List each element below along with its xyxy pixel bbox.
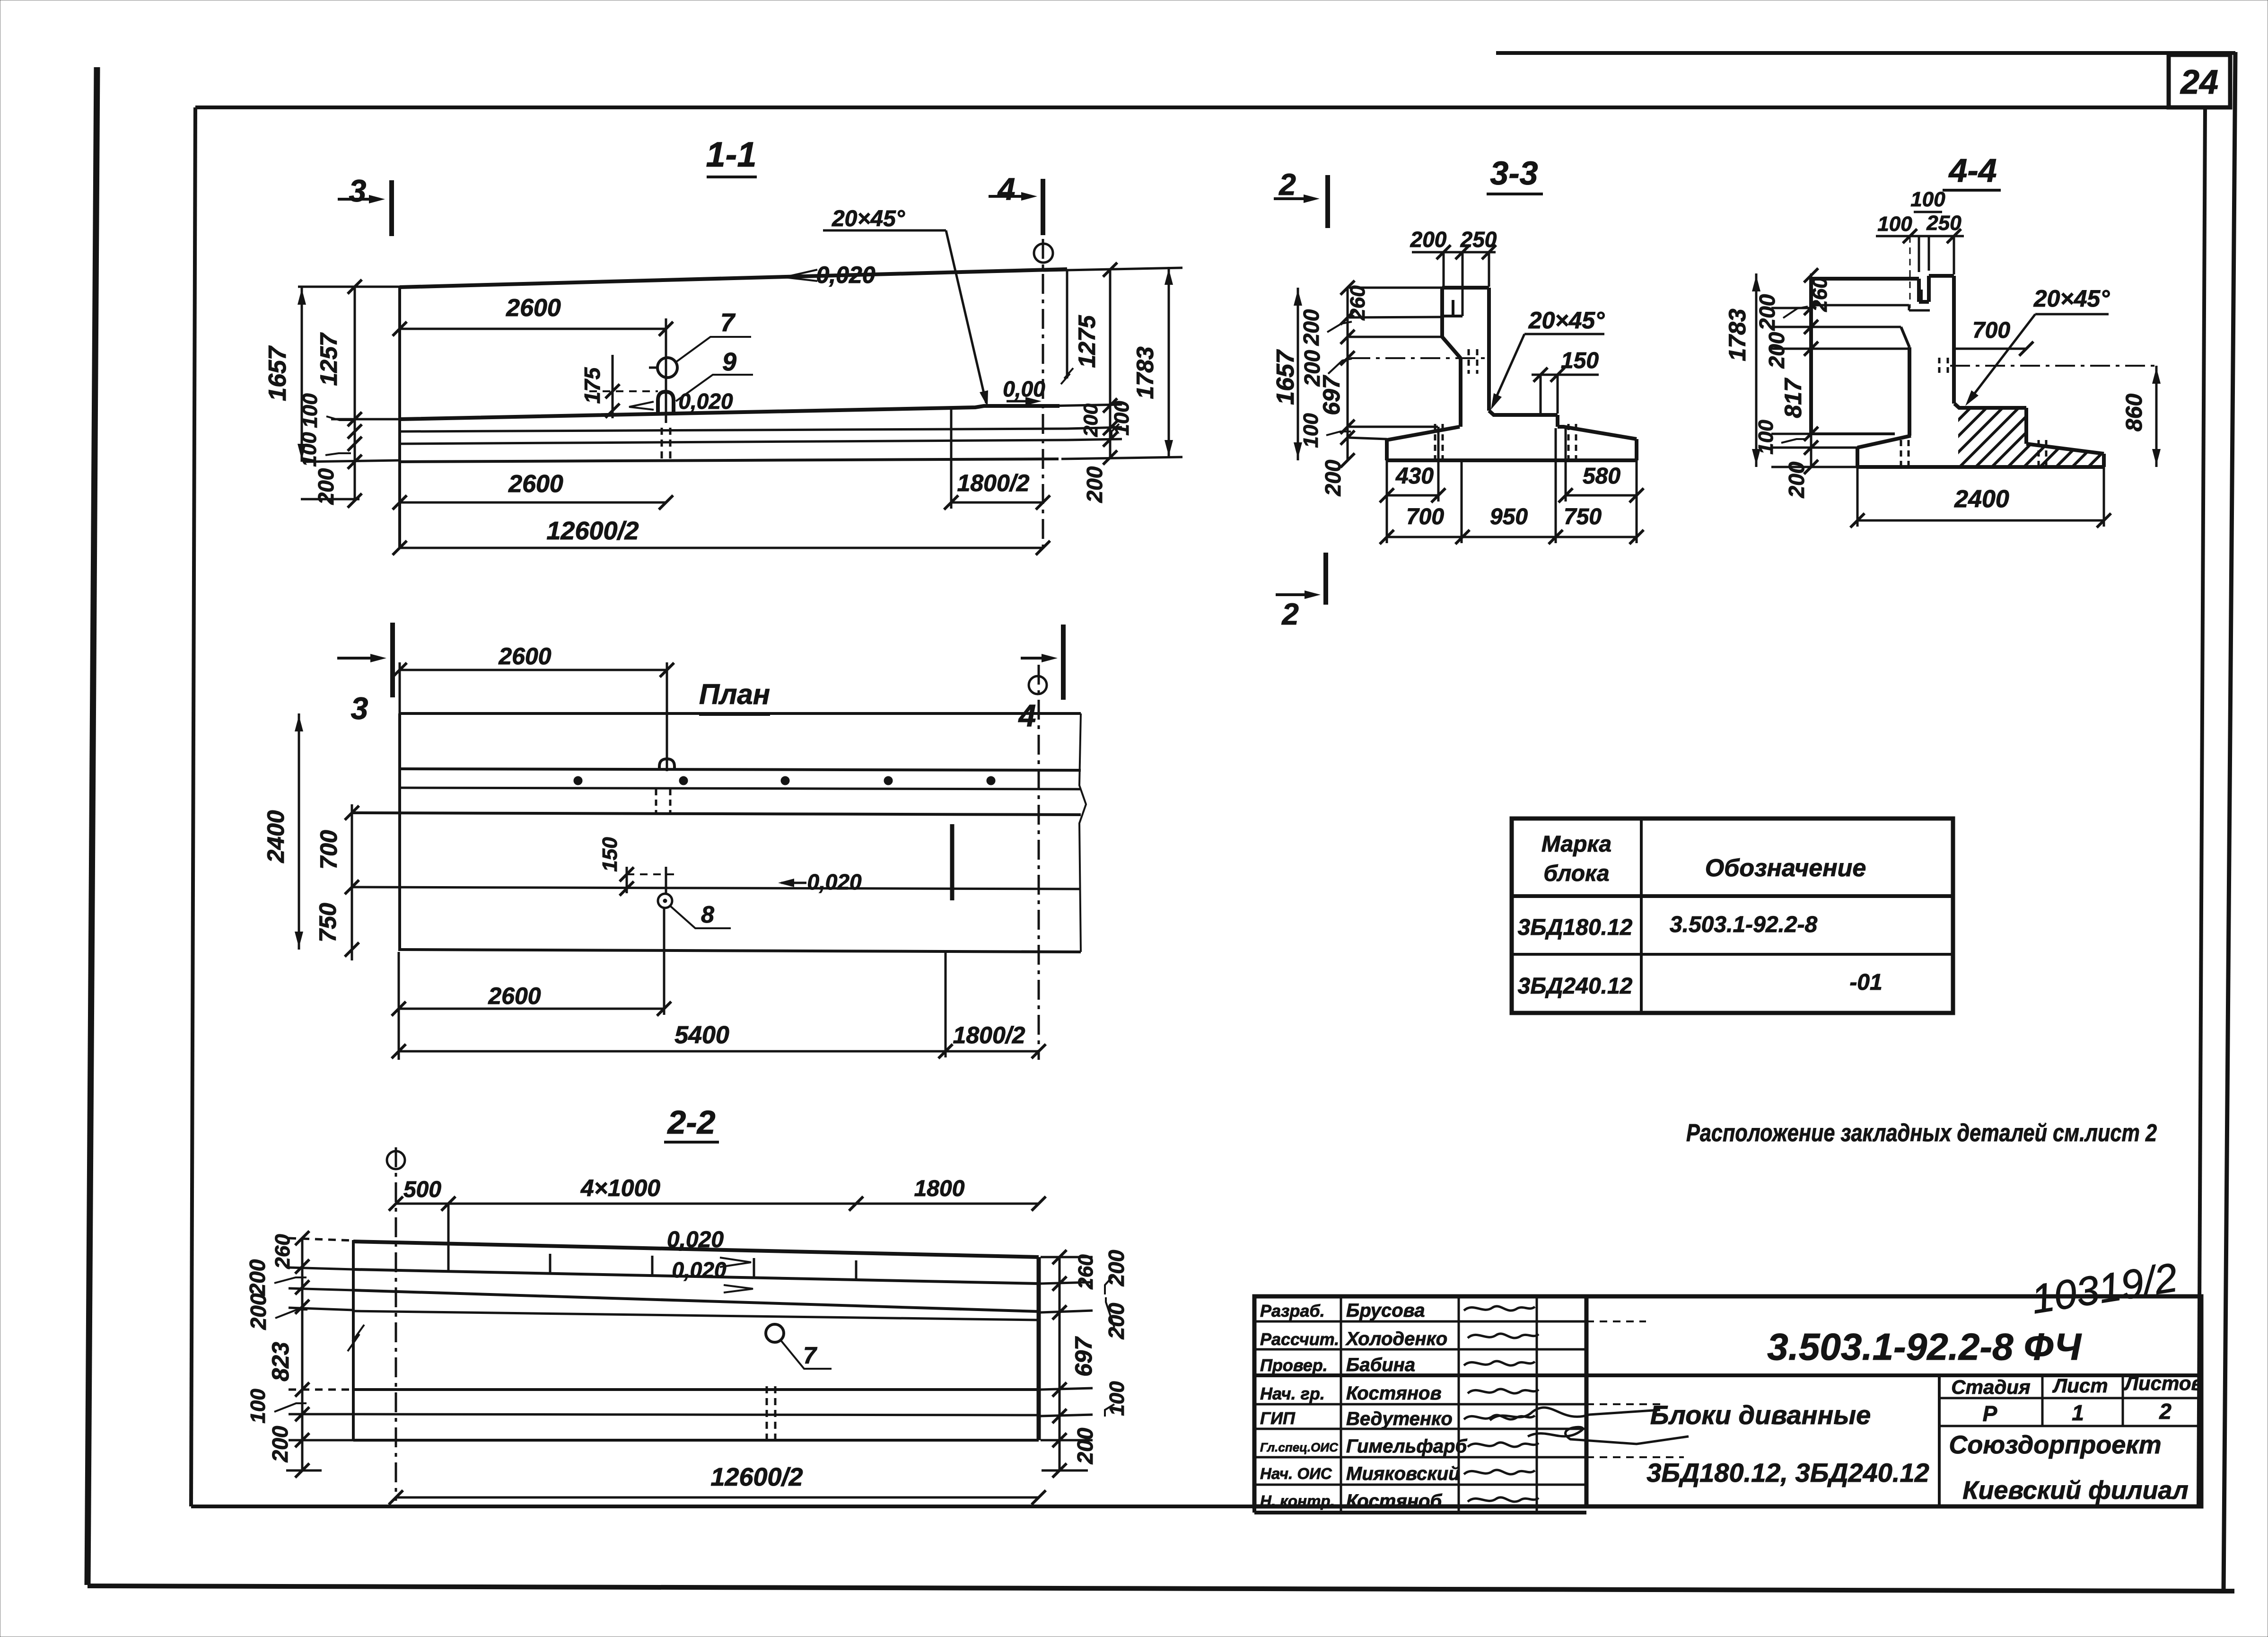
svg-text:200: 200 (1082, 466, 1107, 503)
3-3 outline: foundation left edge (1385, 440, 1389, 460)
svg-text:200: 200 (1073, 1427, 1097, 1464)
dim 175 extension dash (589, 390, 658, 392)
svg-text:100: 100 (298, 432, 321, 467)
page left edge shadow (88, 67, 97, 1585)
3-3 dim 1657 line (1297, 288, 1299, 460)
dim 2600 top boundary (665, 318, 667, 423)
title block divider names/signatures (1458, 1296, 1460, 1513)
svg-text:1783: 1783 (1724, 308, 1751, 361)
4-4 outline: top edge (1811, 277, 1919, 281)
dim 1800/2 boundary (950, 407, 953, 509)
svg-text:100: 100 (1877, 212, 1912, 236)
svg-text:2: 2 (2159, 1399, 2172, 1424)
svg-text:700: 700 (315, 830, 342, 870)
3-3 chamfer leader (1493, 334, 1524, 405)
svg-text:Гл.спец.ОИС: Гл.спец.ОИС (1260, 1440, 1339, 1454)
3-3 outline: parapet top (1442, 286, 1489, 290)
svg-text:Костянов: Костянов (1346, 1383, 1442, 1404)
4-4 inner line 691 (1811, 326, 1901, 328)
svg-text:200: 200 (246, 1293, 271, 1330)
svg-text:2-2: 2-2 (666, 1104, 715, 1141)
3-3 notch inner tick (1452, 300, 1454, 316)
section marker 2 top: bar (1325, 175, 1330, 228)
extension ticks 1-1 left (298, 286, 400, 288)
page bottom edge shadow (88, 1586, 2234, 1591)
plan embedded dots (574, 776, 582, 785)
4-4 inner line 737 (1811, 348, 1909, 350)
3-3 extension lines left (1349, 287, 1442, 289)
svg-text:500: 500 (403, 1177, 441, 1202)
svg-text:100: 100 (1754, 420, 1778, 455)
svg-text:200: 200 (1321, 459, 1345, 496)
svg-text:2: 2 (1278, 167, 1296, 202)
3-3 outline: seat step (1556, 415, 1559, 427)
svg-text:3.503.1-92.2-8: 3.503.1-92.2-8 (1670, 912, 1818, 937)
4-4 seat step (2024, 408, 2028, 444)
4-4 extension ticks left (1771, 307, 1811, 309)
section marker 3 top: arrow line (338, 198, 378, 201)
plan dim 150 line (626, 867, 628, 893)
plan rail line b (400, 788, 1081, 789)
svg-text:580: 580 (1583, 464, 1620, 489)
svg-text:0,00: 0,00 (1003, 377, 1045, 401)
svg-text:Нач. ОИС: Нач. ОИС (1260, 1465, 1332, 1482)
svg-text:1800/2: 1800/2 (957, 470, 1030, 496)
4-4 top dim hidden boundary (1909, 236, 1911, 308)
beam 1-1 centerline (1042, 239, 1044, 551)
leader 7 of 2-2 (780, 1340, 832, 1369)
svg-text:2400: 2400 (1954, 485, 2009, 513)
plan bottom dim 5400 line (399, 1050, 1039, 1053)
svg-text:Мияковский: Мияковский (1346, 1463, 1460, 1484)
4-4 foundation right edge (2102, 454, 2106, 467)
svg-text:Нач. гр.: Нач. гр. (1260, 1384, 1325, 1403)
svg-text:700: 700 (1972, 318, 2010, 343)
svg-text:12600/2: 12600/2 (710, 1463, 803, 1491)
plan lower line (352, 887, 1081, 889)
beam 2-2 slab line b (353, 1414, 1039, 1415)
plan leader 8 (670, 906, 731, 928)
svg-text:блока: блока (1543, 861, 1609, 886)
svg-text:3БД180.12, 3БД240.12: 3БД180.12, 3БД240.12 (1646, 1458, 1929, 1487)
signature flourish GIP (1490, 1408, 1660, 1420)
svg-text:817: 817 (1780, 378, 1806, 418)
svg-text:4-4: 4-4 (1948, 152, 1997, 189)
svg-text:200: 200 (1299, 309, 1323, 346)
plan centerline (1038, 665, 1040, 1060)
4-4 dim 1783 line (1755, 273, 1758, 467)
section 2-2 centerline symbol (387, 1151, 405, 1169)
plan dim 5400 right boundary (945, 952, 947, 1057)
4-4 dim stack column (1810, 273, 1813, 467)
svg-text:1: 1 (2072, 1400, 2084, 1425)
4-4 foundation top right slope (2026, 444, 2104, 454)
loop 9 leader (676, 375, 753, 401)
drawing frame right border (2198, 107, 2205, 1506)
beam 1-1 bottom edge (400, 459, 1059, 462)
3-3 outline: web left edge (1459, 358, 1462, 427)
title block row lines (1254, 1320, 1586, 1323)
3-3 dash-dot level line (1350, 357, 1489, 359)
svg-text:0,020: 0,020 (807, 870, 862, 894)
4-4 splice dashes web (1938, 358, 1941, 376)
4-4 foundation top left slope (1857, 436, 1911, 448)
svg-text:Обозначение: Обозначение (1705, 854, 1866, 882)
title block divider signatures/dates (1536, 1296, 1538, 1513)
svg-text:Союздорпроект: Союздорпроект (1949, 1431, 2161, 1459)
svg-text:3: 3 (349, 173, 367, 208)
4-4 chamfer leader (1969, 314, 2035, 401)
3-3 outline: foundation top right slope (1558, 427, 1637, 439)
svg-text:4: 4 (997, 171, 1016, 206)
svg-text:8: 8 (701, 901, 714, 928)
spacing ticks on line 2 (447, 1251, 450, 1272)
4-4 dim 2400 line (1857, 519, 2104, 522)
svg-text:7: 7 (803, 1342, 817, 1369)
chamfer leader 1-1 (946, 230, 986, 403)
section 2-2 centerline (395, 1147, 397, 1501)
page right edge shadow (2224, 52, 2235, 1592)
embedded part 7 circle (657, 358, 677, 378)
4-4 left block bottom (1811, 432, 1895, 435)
svg-text:1800: 1800 (914, 1176, 965, 1201)
svg-text:260: 260 (1074, 1254, 1097, 1290)
svg-text:ГИП: ГИП (1260, 1408, 1296, 1428)
table column divider (1640, 818, 1643, 1013)
3-3 top dim boundaries (1443, 252, 1445, 287)
section marker 3 bottom: bar (390, 623, 395, 697)
section marker 3 top: bar (389, 180, 394, 236)
right dim column of 2-2 (1059, 1257, 1061, 1471)
svg-text:697: 697 (1318, 375, 1345, 415)
svg-text:100: 100 (1105, 1381, 1129, 1416)
svg-text:260: 260 (1808, 277, 1831, 312)
extension ticks 2-2 left (289, 1238, 353, 1241)
title block dashed row extensions (1586, 1403, 1665, 1405)
4-4 outline: parapet top (1929, 274, 1954, 278)
svg-text:200: 200 (1079, 404, 1102, 437)
page number box (2169, 55, 2230, 107)
4-4 level dash-dot line (1950, 365, 2156, 367)
beam 2-2 left break squiggle (348, 1325, 364, 1351)
signature flourish Gimelfarb (1528, 1427, 1689, 1444)
svg-text:3БД240.12: 3БД240.12 (1518, 974, 1633, 999)
3-3 outline: parapet left edge (1440, 288, 1444, 337)
4-4 dim 700 line (1954, 348, 2026, 350)
svg-text:1800/2: 1800/2 (953, 1022, 1025, 1048)
section marker 4 bottom: bar (1061, 625, 1066, 700)
svg-text:Гимельфарб: Гимельфарб (1346, 1436, 1467, 1457)
svg-text:175: 175 (580, 367, 604, 404)
section marker 2 top: arrow line (1274, 197, 1314, 200)
4-4 splice dashes right foundation (2038, 440, 2040, 467)
beam 2-2 line 4 (353, 1311, 1039, 1320)
4-4 top dim boundaries (1918, 236, 1920, 272)
title block stage values row line (1939, 1425, 2201, 1427)
table header row line (1512, 894, 1953, 898)
svg-text:260: 260 (271, 1234, 294, 1269)
svg-text:100: 100 (298, 393, 322, 428)
svg-text:100: 100 (1299, 413, 1322, 448)
section marker 2 bottom: arrow line (1276, 593, 1315, 596)
svg-text:Стадия: Стадия (1951, 1376, 2030, 1398)
svg-text:Киевский филиал: Киевский филиал (1962, 1476, 2188, 1505)
svg-text:Листов: Листов (2123, 1372, 2203, 1394)
3-3 splice dashes left foundation (1434, 424, 1436, 460)
plan bottom dim 2600 line (399, 1008, 664, 1010)
svg-text:Блоки диванные: Блоки диванные (1650, 1400, 1871, 1430)
svg-text:1783: 1783 (1132, 346, 1158, 399)
svg-text:2600: 2600 (498, 643, 551, 669)
svg-text:Р: Р (1983, 1401, 1997, 1426)
embedded part 7 circle 2-2 (766, 1324, 784, 1342)
svg-text:24: 24 (2180, 63, 2218, 101)
4-4 web right edge (1952, 276, 1956, 404)
4-4 foundation left edge (1856, 448, 1859, 467)
svg-text:Рассчит.: Рассчит. (1260, 1329, 1339, 1349)
svg-text:200: 200 (1784, 461, 1809, 498)
left dim column stack of 1-1 (354, 287, 356, 501)
svg-text:1657: 1657 (264, 345, 291, 401)
3-3 dim 700/950/750 line (1387, 536, 1637, 538)
beam 2-2 right end edge (1037, 1257, 1041, 1440)
plan outline bottom edge (400, 950, 1081, 952)
table row line (1512, 953, 1953, 956)
right dims 1-1: extension lines (1043, 268, 1182, 271)
title block right area divider (1938, 1375, 1941, 1506)
plan circle 8 (658, 894, 672, 908)
dim 1800/2 line (951, 502, 1043, 504)
svg-text:5400: 5400 (674, 1021, 729, 1049)
dim 1783 line of 1-1 (1168, 267, 1170, 458)
svg-text:100: 100 (246, 1389, 270, 1424)
svg-text:697: 697 (1070, 1336, 1097, 1377)
svg-text:7: 7 (720, 308, 736, 337)
svg-text:4: 4 (1018, 698, 1036, 733)
svg-text:823: 823 (267, 1342, 294, 1382)
svg-text:3-3: 3-3 (1490, 155, 1538, 192)
top dim line 2-2 (396, 1203, 1039, 1205)
svg-text:2: 2 (1281, 597, 1299, 631)
svg-text:План: План (699, 678, 770, 710)
slope mark 0,020 lower (629, 402, 654, 410)
svg-text:2400: 2400 (263, 810, 289, 863)
svg-text:0,020: 0,020 (672, 1258, 727, 1282)
svg-text:200: 200 (1755, 294, 1779, 331)
drawing frame top border (195, 106, 2205, 109)
table of marks: outer box (1512, 818, 1953, 1013)
svg-text:150: 150 (598, 837, 622, 872)
embedded part 7 leader (675, 337, 751, 362)
svg-text:12600/2: 12600/2 (546, 517, 639, 545)
beam 2-2 left edge (352, 1240, 355, 1440)
left dim column of 2-2 (301, 1238, 304, 1471)
4-4 top dim line (1876, 235, 1964, 238)
4-4 notch lines (1917, 279, 1921, 302)
plan dim 2600 top boundaries (399, 662, 401, 715)
svg-text:1275: 1275 (1074, 315, 1100, 368)
4-4 taper (1901, 327, 1909, 347)
svg-text:3: 3 (351, 691, 368, 726)
svg-text:250: 250 (1926, 211, 1962, 235)
left dim column 1657 of 1-1 (301, 287, 303, 462)
beam 1-1 top edge (400, 269, 1067, 287)
svg-text:Расположение закладных деталей: Расположение закладных деталей см.лист 2 (1686, 1119, 2157, 1147)
svg-text:3.503.1-92.2-8 ФЧ: 3.503.1-92.2-8 ФЧ (1767, 1326, 2082, 1368)
beam 1-1 slab line a (400, 429, 1067, 431)
svg-text:430: 430 (1395, 464, 1434, 489)
svg-text:200: 200 (314, 468, 338, 505)
plan hidden dowel dashes (655, 789, 657, 813)
svg-text:950: 950 (1490, 504, 1528, 529)
svg-text:20×45°: 20×45° (2033, 285, 2110, 312)
plan centerline symbol (1029, 676, 1047, 694)
svg-text:Провер.: Провер. (1260, 1355, 1328, 1375)
beam 1-1 slab line b (400, 440, 1067, 444)
svg-text:Ведутенко: Ведутенко (1346, 1408, 1453, 1429)
4-4 hatch region (1797, 402, 2268, 468)
plan seat front line (352, 813, 1081, 815)
beam 1-1 right break boundary (1066, 269, 1068, 378)
dim 12600/2 line (400, 547, 1043, 549)
3-3 outline: chamfer and seat (1489, 411, 1558, 415)
plan dim column 700/750 (351, 804, 353, 960)
plan outline left edge (398, 713, 401, 951)
svg-text:20×45°: 20×45° (832, 206, 905, 231)
svg-text:0,020: 0,020 (667, 1227, 724, 1252)
section marker 4 bottom: arrow line (1021, 657, 1052, 660)
svg-text:Брусова: Брусова (1346, 1300, 1425, 1321)
title block stage dividers (2041, 1375, 2044, 1426)
3-3 outline: web right edge (1487, 288, 1491, 411)
section marker 2 bottom: bar (1323, 553, 1328, 605)
svg-text:750: 750 (315, 903, 341, 942)
3-3 notch line (1442, 315, 1462, 317)
svg-text:2600: 2600 (488, 983, 541, 1009)
extension ticks 2-2 right (1041, 1256, 1093, 1259)
plan right break line (1079, 713, 1086, 952)
4-4 splice dashes left foundation (1900, 440, 1902, 467)
3-3 splice dashes right foundation (1567, 424, 1570, 460)
title block signature-table lower edge (1254, 1511, 1586, 1514)
plan bottom dim boundaries (398, 952, 400, 1060)
4-4 chamfer and seat line (1954, 404, 2026, 408)
title block signatures (1464, 1306, 1535, 1311)
svg-text:700: 700 (1406, 504, 1444, 529)
svg-text:2600: 2600 (508, 470, 563, 498)
svg-text:Марка: Марка (1541, 832, 1611, 857)
title block stage header row line (1939, 1397, 2201, 1399)
section marker 4 top: arrow line (989, 195, 1031, 198)
3-3 outline: foundation top left slope (1387, 427, 1460, 440)
beam 2-2 line 2 (353, 1269, 1039, 1284)
4-4 notch inner tick (1920, 290, 1923, 301)
svg-text:260: 260 (1346, 285, 1369, 321)
3-3 outline: foundation bottom (1387, 458, 1637, 462)
plan rail line a (400, 769, 1081, 770)
svg-text:Н. контр.: Н. контр. (1260, 1492, 1335, 1510)
svg-text:200: 200 (1764, 332, 1789, 369)
centerline symbol 1-1 (1034, 244, 1053, 263)
title block main divider (1585, 1296, 1589, 1506)
beam 2-2 bottom edge (353, 1439, 1039, 1442)
beam 2-2 line 3 (353, 1290, 1039, 1311)
4-4 web left edge (1908, 347, 1911, 436)
dim 1275 line (1109, 269, 1112, 458)
lifting loop 9 (658, 392, 674, 413)
svg-text:Костяноб: Костяноб (1346, 1491, 1442, 1512)
beam 1-1 break squiggle (1061, 368, 1073, 384)
3-3 outline: foundation right edge (1635, 439, 1638, 460)
3-3 dim stack column (1347, 288, 1349, 460)
svg-text:3БД180.12: 3БД180.12 (1518, 915, 1633, 940)
3-3 outline: taper (1442, 337, 1461, 358)
drawing frame left border (191, 107, 195, 1506)
beam 1-1 seat shelf line with chamfer (400, 406, 1060, 419)
hidden dowel dashes 2-2 (766, 1386, 768, 1444)
dim 500 boundary tick (447, 1204, 450, 1273)
plan dim 2600 top line (400, 669, 667, 671)
svg-text:-01: -01 (1849, 970, 1882, 995)
4-4 inner line 651 (1811, 304, 1909, 307)
beam 1-1 left end edge (398, 287, 401, 549)
plan outline top edge (400, 712, 1081, 715)
dim 175 line (612, 355, 614, 418)
svg-text:1657: 1657 (1272, 349, 1299, 405)
slope mark 0,020 top (784, 270, 817, 281)
plan dim 2400 line (298, 713, 300, 950)
svg-text:1-1: 1-1 (706, 135, 757, 174)
svg-text:2600: 2600 (506, 294, 561, 322)
plan joint line (950, 824, 954, 900)
page top rule (1496, 51, 2235, 55)
3-3 dim 150 line (1532, 374, 1599, 376)
plan slope arrow 0,020 (781, 882, 806, 884)
svg-text:Бабина: Бабина (1346, 1355, 1415, 1375)
svg-text:Холоденко: Холоденко (1345, 1329, 1447, 1349)
3-3 dim 700 boundaries (1386, 460, 1388, 543)
hidden dowel dashes 1-1 (661, 428, 663, 461)
svg-text:750: 750 (1564, 504, 1602, 529)
section marker 3 bottom: arrow line (337, 657, 381, 660)
4-4 dim 860 line (2155, 366, 2158, 467)
svg-text:100: 100 (1910, 188, 1945, 211)
3-3 dim 580 line (1566, 494, 1637, 497)
dim 2600 top line (400, 328, 666, 330)
plan lifting loop (659, 759, 674, 770)
dim 12600/2 line of 2-2 (396, 1496, 1039, 1499)
section marker 4 top: bar (1041, 179, 1045, 235)
svg-text:200: 200 (1410, 227, 1447, 252)
svg-text:0,020: 0,020 (816, 262, 875, 288)
svg-text:4×1000: 4×1000 (580, 1175, 660, 1201)
3-3 top dim line (1412, 251, 1496, 254)
beam 2-2 slab line a (353, 1388, 1039, 1391)
level arrow 0,00 (1007, 400, 1036, 403)
title block outer box (1254, 1296, 2201, 1506)
3-3 splice dashes web (1468, 349, 1470, 374)
4-4 foundation bottom (1857, 465, 2104, 469)
svg-text:Разраб.: Разраб. (1260, 1301, 1325, 1320)
3-3 dim 430 line (1387, 494, 1438, 497)
svg-text:20×45°: 20×45° (1528, 307, 1605, 334)
svg-text:200: 200 (268, 1426, 292, 1462)
svg-text:860: 860 (2122, 394, 2147, 431)
svg-text:Лист: Лист (2052, 1374, 2108, 1397)
svg-text:9: 9 (722, 348, 736, 376)
svg-text:150: 150 (1561, 348, 1599, 373)
beam 2-2 top edge (353, 1241, 1039, 1257)
